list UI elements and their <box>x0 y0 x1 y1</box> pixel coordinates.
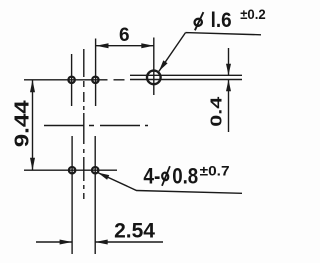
svg-text:0.8: 0.8 <box>172 164 198 189</box>
svg-text:±0.7: ±0.7 <box>200 163 230 179</box>
dimension line 9.44 <box>32 80 34 170</box>
arrowhead 0.4 top <box>226 64 231 76</box>
arrowhead 2.54 right <box>95 240 108 245</box>
dimension line 0.4 lower <box>228 80 230 132</box>
wire vertical line through top-right hole / extension for 6 <box>95 39 97 107</box>
wire slot top line <box>130 74 242 76</box>
wire vertical line through top-left hole <box>71 54 73 106</box>
hole top-left phi0.8 <box>68 77 74 83</box>
hole big phi1.6 <box>147 71 161 85</box>
svg-text:6: 6 <box>119 25 130 46</box>
svg-text:l.6: l.6 <box>211 8 232 32</box>
wire top row centerline <box>24 79 125 81</box>
wire slot bottom line <box>130 79 242 81</box>
arrowhead leader phi1.6 <box>159 60 168 71</box>
wire bottom row centerline <box>24 169 117 171</box>
leader line 4-phi0.8 <box>98 173 242 194</box>
arrowhead 9.44 top <box>30 80 35 93</box>
hole top-right phi0.8 <box>92 77 98 83</box>
arrowhead 0.4 bottom <box>226 80 231 92</box>
svg-text:0.4: 0.4 <box>209 97 226 127</box>
wire vertical line through bottom-right hole / extension for 2.54 <box>94 136 96 254</box>
hole bottom-left phi0.8 <box>69 167 75 173</box>
dimension line 2.54 right <box>95 241 163 243</box>
wire vertical line through bottom-left hole / extension for 2.54 <box>71 136 73 254</box>
arrowhead leader 4-phi0.8 <box>98 173 110 180</box>
wire vertical dash-dot centerline <box>83 49 85 199</box>
dimension line 2.54 left <box>36 241 72 243</box>
arrowhead 2.54 left <box>60 240 73 245</box>
dimension line 0.4 upper <box>228 48 230 75</box>
label phi symbol of 4-phi0.8 <box>161 166 170 186</box>
svg-text:2.54: 2.54 <box>114 219 155 242</box>
wire vertical centerline through big hole <box>153 38 155 96</box>
arrowhead 9.44 bottom <box>30 158 35 171</box>
arrowhead 6 left <box>96 43 109 48</box>
dimension line 6 <box>96 45 154 47</box>
svg-text:4-: 4- <box>143 164 160 189</box>
wire horizontal dash-dot centerline <box>44 125 148 127</box>
leader line phi1.6 <box>159 33 261 72</box>
hole bottom-right phi0.8 <box>92 167 98 173</box>
svg-text:±0.2: ±0.2 <box>240 6 266 22</box>
svg-text:9.44: 9.44 <box>12 99 34 147</box>
label phi symbol of phi1.6 <box>194 12 204 30</box>
arrowhead 6 right <box>141 43 154 48</box>
